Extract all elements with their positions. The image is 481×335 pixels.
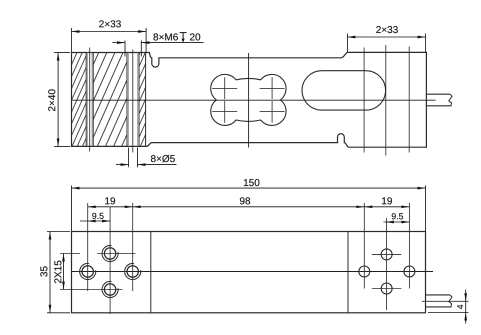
dimension 2x33 left bbox=[71, 28, 146, 52]
dimension 35 bbox=[47, 232, 70, 313]
section edge line bbox=[145, 53, 147, 147]
right hole west bbox=[359, 266, 370, 277]
cross bottom-left bbox=[212, 110, 237, 112]
cross marks on lobes bbox=[212, 77, 284, 123]
dimension 19 left bbox=[88, 206, 133, 208]
hole 2 bore walls bbox=[126, 53, 128, 147]
plan horizontal centerline bbox=[72, 271, 433, 273]
body outline bbox=[72, 232, 426, 313]
dimension 150 bbox=[72, 186, 426, 232]
dimension 98 bbox=[133, 206, 365, 208]
hatch strip left (section) bbox=[72, 53, 86, 146]
dimension 8xM6 depth 20 bbox=[112, 41, 203, 57]
dimension 19 right bbox=[364, 206, 409, 208]
depth symbol bbox=[180, 32, 187, 34]
right block centerlines bbox=[363, 48, 365, 153]
hatch strip middle wide bbox=[93, 53, 126, 146]
cable (plan view) bbox=[426, 295, 452, 307]
hole 1 centerline bbox=[89, 48, 91, 152]
right block boundary bbox=[347, 232, 349, 313]
cross top-left bbox=[212, 87, 237, 89]
hole 2 thread lines bbox=[128, 53, 130, 147]
dimension 9.5 left bbox=[80, 220, 110, 222]
cross top-right bbox=[260, 87, 285, 89]
hole 1 bore walls bbox=[85, 53, 87, 147]
left hole top (M6 tapped) bbox=[102, 245, 118, 261]
hole 2 centerline bbox=[132, 50, 134, 153]
cross bottom-right bbox=[260, 110, 285, 112]
main horizontal centerline bbox=[72, 99, 436, 101]
right holes centerlines bbox=[364, 203, 409, 310]
cable (side view) bbox=[426, 94, 451, 106]
dimension 2x33 right bbox=[347, 34, 425, 53]
hole 1 thread lines bbox=[87, 53, 89, 147]
left hole bottom bbox=[102, 281, 118, 297]
dimension 2x40 bbox=[54, 53, 70, 147]
body outline bbox=[72, 52, 427, 147]
flexure cutout (four-lobe) bbox=[211, 74, 286, 125]
obround slot bbox=[302, 71, 386, 110]
left holes centerlines bbox=[60, 203, 136, 314]
dimension 8xD5 bbox=[116, 148, 177, 168]
dimension 9.5 right bbox=[384, 221, 410, 223]
vertical centerline bbox=[248, 53, 250, 148]
left block boundary bbox=[150, 232, 152, 313]
dimension 2X15 bbox=[63, 254, 65, 290]
cable centerline plan bbox=[422, 300, 469, 302]
dimension 4 (cable) bbox=[428, 290, 469, 324]
right hole bottom bbox=[381, 283, 392, 294]
cable break mark plan bbox=[449, 295, 452, 307]
right hole top bbox=[381, 249, 392, 260]
left hole east bbox=[125, 263, 141, 279]
hatch strip right bbox=[139, 53, 146, 146]
left hole west bbox=[80, 263, 96, 279]
cable break mark bbox=[449, 94, 452, 106]
right hole east bbox=[404, 266, 415, 277]
